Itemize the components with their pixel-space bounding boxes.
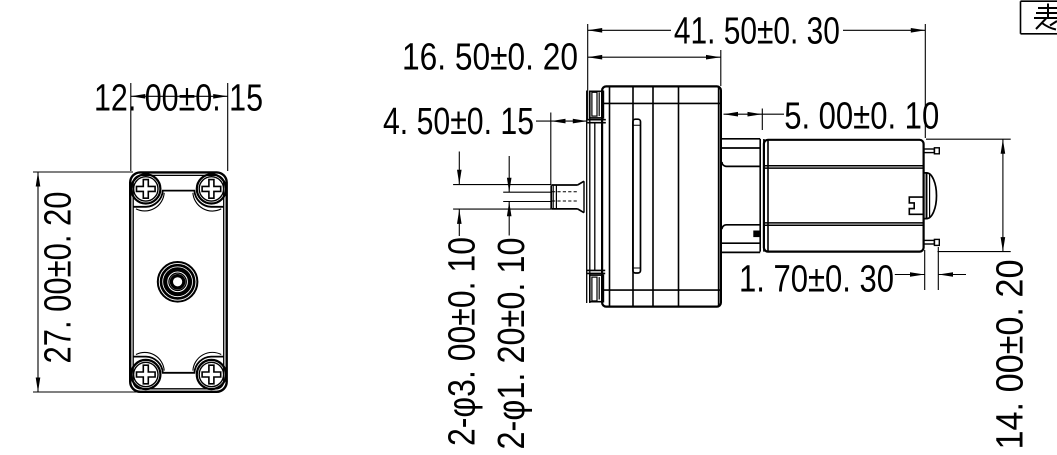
dia 1.20 arrows — [507, 178, 512, 217]
svg-text:14. 00±0. 20: 14. 00±0. 20 — [990, 260, 1032, 450]
pump body internal vertical lines — [610, 86, 679, 306]
plate inner outline — [133, 175, 224, 388]
motor can — [764, 140, 924, 252]
pump body bottom internal lines — [602, 289, 721, 291]
lower mount tab — [722, 225, 760, 253]
svg-text:2-φ1. 20±0. 10: 2-φ1. 20±0. 10 — [491, 238, 533, 450]
upper mount tab — [722, 139, 760, 167]
pump body outline — [602, 86, 721, 306]
ext line pump right edge — [720, 50, 722, 86]
dia 3.00 arrows — [457, 170, 462, 224]
svg-text:41. 50±0. 30: 41. 50±0. 30 — [674, 11, 840, 53]
ext line pump left edge (shared 41.50/16.50) — [587, 24, 589, 120]
motor seam lines — [764, 166, 924, 225]
nozzle port (concentric circles) — [158, 262, 198, 302]
character biao (surface) — [1034, 4, 1057, 30]
slot — [633, 119, 641, 273]
bottom clip — [587, 270, 606, 301]
dim 27.00 line — [37, 172, 39, 392]
pump body top internal line — [602, 102, 721, 104]
dim 27.00 extension lines — [33, 172, 138, 392]
barb hidden bore lines — [552, 192, 578, 201]
inlet barb — [551, 181, 584, 213]
svg-text:4. 50±0. 15: 4. 50±0. 15 — [383, 101, 534, 143]
slot inner cap lines — [633, 125, 641, 268]
svg-text:16. 50±0. 20: 16. 50±0. 20 — [402, 37, 578, 79]
dim 27.00 arrows — [36, 172, 41, 392]
screw TL — [131, 174, 160, 203]
pump body right edge inner line — [718, 87, 720, 306]
dim 41.50 line — [588, 29, 926, 31]
dia 3.00 leader lines — [453, 152, 551, 237]
tab detail stud — [754, 231, 760, 237]
dim 4.50 ext line — [550, 113, 552, 185]
svg-text:2-φ3. 00±0. 10: 2-φ3. 00±0. 10 — [441, 237, 483, 446]
dim 16.50 line — [588, 56, 721, 58]
front cover plate edges — [587, 91, 595, 304]
terminal pin top — [924, 148, 940, 154]
dim 1.70 lines — [895, 247, 966, 290]
screw TR — [197, 174, 226, 203]
dim 41.50 arrows — [588, 28, 926, 33]
motor end cap bump — [924, 173, 937, 219]
dim 1.70 arrows — [910, 272, 953, 277]
svg-text:12. 00±0. 15: 12. 00±0. 15 — [94, 78, 263, 120]
dim 12.00 arrows — [131, 94, 228, 99]
dim 5.00 line — [724, 109, 785, 131]
motor front face — [760, 139, 768, 252]
dia 1.20 leader lines — [503, 156, 550, 236]
top screw-boss bridge — [133, 191, 224, 211]
dim 14.00 ext lines — [926, 139, 1011, 251]
dim 4.50 line — [536, 120, 587, 122]
dim 12.00 line — [131, 95, 228, 97]
terminal pin bottom — [924, 239, 940, 245]
bottom screw-boss bridge — [133, 352, 224, 372]
screw BL — [131, 360, 160, 389]
dim 5.00 arrows — [724, 112, 763, 117]
motor end cap inner line — [926, 174, 929, 219]
ext line motor right edge — [924, 24, 926, 138]
svg-text:1. 70±0. 30: 1. 70±0. 30 — [739, 259, 894, 301]
svg-text:27. 00±0. 20: 27. 00±0. 20 — [38, 192, 80, 364]
dim 4.50 arrows — [551, 119, 587, 124]
top clip — [587, 91, 606, 122]
dim 16.50 arrows — [588, 55, 721, 60]
dim 14.00 arrows — [1001, 139, 1006, 251]
plate outer outline — [130, 172, 227, 391]
screw BR — [197, 360, 226, 389]
brush notch — [909, 197, 923, 214]
dim 12.00 extension lines — [131, 83, 228, 171]
svg-text:5. 00±0. 10: 5. 00±0. 10 — [784, 96, 939, 138]
dim 14.00 line — [1002, 139, 1004, 251]
title block box — [1021, 1, 1057, 34]
